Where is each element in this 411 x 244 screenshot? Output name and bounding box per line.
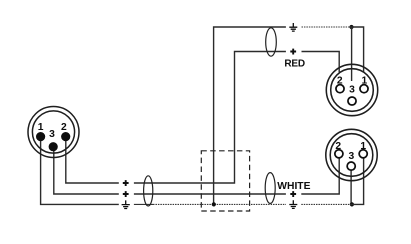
- WHITE XLR male P2 inner ring: [330, 134, 373, 177]
- left XLR female J1 inner ring: [32, 111, 74, 153]
- wire hot to RED pin2: [302, 52, 340, 73]
- J1 pin 2 contact: [61, 132, 70, 141]
- shield dotted segment to RED: [302, 26, 350, 28]
- wire J1 pin1 to left ground symbol: [41, 139, 119, 204]
- P2 pin 2 contact: [335, 150, 343, 158]
- svg-text:1: 1: [38, 122, 44, 133]
- cable jacket ellipse left: [144, 176, 153, 206]
- ground symbol left: [122, 200, 130, 208]
- J1 pin 3 contact: [49, 142, 58, 151]
- svg-text:3: 3: [349, 151, 355, 162]
- svg-text:2: 2: [335, 141, 341, 152]
- P2 pin 1 contact: [359, 150, 367, 158]
- wire shield to RED pin1: [350, 27, 364, 72]
- svg-text:3: 3: [349, 84, 355, 95]
- svg-text:WHITE: WHITE: [277, 181, 310, 192]
- shield riser to top run: [214, 27, 286, 204]
- wire hot run J1 pin3 to WHITE plus: [134, 193, 286, 195]
- cable jacket ellipse white: [265, 173, 275, 204]
- wire shield to WHITE pin1: [350, 158, 364, 204]
- P1 pin 3 contact: [348, 97, 356, 105]
- ground symbol WHITE: [289, 200, 297, 208]
- P1 pin 1 contact: [360, 85, 368, 93]
- wire J1 pin2 to left hot symbol: [66, 139, 119, 183]
- svg-text:2: 2: [61, 122, 67, 133]
- wire J1 pin3 to left hot symbol: [54, 149, 119, 194]
- hot + mark left middle: [123, 191, 129, 197]
- svg-text:3: 3: [49, 129, 55, 140]
- junction dot WHITE shield: [350, 202, 354, 206]
- svg-text:RED: RED: [284, 58, 305, 69]
- wire WHITE pin3 to shield: [350, 171, 352, 205]
- cable jacket ellipse top: [266, 28, 277, 56]
- WHITE XLR male P2 outer shell: [326, 129, 377, 180]
- svg-text:2: 2: [337, 76, 343, 87]
- shield dotted run bottom: [153, 203, 286, 205]
- hot + mark RED: [290, 49, 296, 55]
- wire shield to RED pin3: [351, 27, 353, 81]
- ground symbol top: [289, 23, 297, 31]
- P2 pin 3 contact: [347, 162, 355, 170]
- RED XLR male P1 outer shell: [326, 64, 377, 115]
- J1 pin 1 contact: [36, 132, 45, 141]
- wire hot to WHITE pin2: [301, 158, 339, 194]
- junction dot RED shield split: [349, 25, 353, 29]
- hot + mark left top: [123, 180, 129, 186]
- svg-text:1: 1: [362, 76, 368, 87]
- hot + mark WHITE: [290, 191, 296, 197]
- left XLR female J1 outer shell: [28, 107, 79, 158]
- svg-text:1: 1: [360, 141, 366, 152]
- wire hot run J1 pin2 to RED riser: [134, 52, 286, 184]
- RED XLR male P1 inner ring: [331, 69, 374, 112]
- P1 pin 2 contact: [336, 85, 344, 93]
- shield lead-in from left ground symbol: [134, 203, 153, 205]
- junction dot shield riser: [212, 202, 216, 206]
- adapter dashed box: [201, 151, 249, 211]
- shield dotted segment WHITE: [301, 203, 350, 205]
